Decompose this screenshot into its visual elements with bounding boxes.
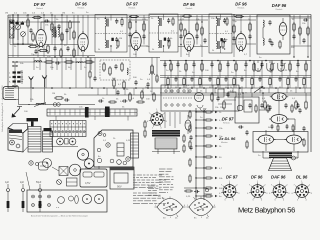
- resistor R46: [189, 124, 191, 126]
- coil package bottom view 1: [157, 199, 183, 216]
- capacitor C4: [44, 20, 46, 22]
- band switch S1: [13, 71, 16, 73]
- resistor R15: [143, 22, 145, 24]
- capacitor C30: [246, 130, 248, 132]
- tube label DF 96 V5: [235, 2, 247, 10]
- wire n1: [13, 43, 33, 45]
- leader line 2: [26, 172, 30, 190]
- screw box: [59, 167, 68, 176]
- tube socket DL 96: [296, 185, 309, 198]
- resistor R49: [189, 174, 191, 176]
- resistor R52: [279, 40, 281, 42]
- resistor R10: [47, 44, 49, 46]
- capacitor C31: [238, 126, 240, 128]
- capacitor C43: [190, 145, 192, 147]
- svg-text:Rimlock: Rimlock: [129, 8, 136, 10]
- component row 2: [167, 77, 169, 79]
- resistor R2: [32, 32, 34, 34]
- note paragraph 2: [133, 192, 137, 194]
- resistor R5: [61, 32, 63, 34]
- resistor R35: [129, 92, 131, 94]
- tube label DF 97 V3: [126, 2, 138, 10]
- svg-text:Rimlock: Rimlock: [238, 8, 245, 10]
- ferrite antenna L6: [3, 87, 16, 100]
- battery B2: [110, 167, 134, 189]
- output stage box: [253, 132, 308, 153]
- svg-text:DF 96: DF 96: [75, 2, 87, 7]
- wire mesh horizontal: [10, 21, 80, 23]
- resistor R25: [299, 26, 301, 28]
- svg-text:6: 6: [214, 205, 215, 207]
- wire keyboard drops: [164, 112, 166, 128]
- resistor R28: [64, 61, 66, 63]
- svg-text:DF 96: DF 96: [235, 2, 247, 7]
- svg-text:Rimlock: Rimlock: [186, 8, 193, 10]
- knob pair: [57, 138, 64, 145]
- resistor R32: [121, 62, 123, 64]
- capacitor C23: [135, 80, 137, 82]
- svg-text:2x DL 96: 2x DL 96: [218, 136, 236, 141]
- resistor R4: [51, 22, 53, 24]
- resistor R20: [201, 26, 203, 28]
- resistor R23: [249, 22, 251, 24]
- variable capacitor C2: [21, 32, 26, 37]
- bottom view box: [27, 190, 107, 212]
- svg-text:1M: 1M: [62, 13, 65, 15]
- coil L7: [36, 103, 38, 104]
- wire filament rails: [160, 74, 311, 76]
- resistor R41: [264, 100, 266, 102]
- resistor R33: [113, 78, 115, 80]
- oscillator dashed box: [100, 60, 130, 80]
- svg-text:1M: 1M: [5, 13, 8, 15]
- wire top bus: [8, 14, 150, 16]
- resistor R13: [129, 20, 131, 22]
- resistor R29: [84, 61, 86, 63]
- clip box: [67, 178, 78, 186]
- resistor R14: [129, 16, 131, 18]
- resistor R44: [144, 120, 146, 122]
- resistor R56: [136, 101, 138, 103]
- tuning capacitor: [43, 131, 53, 152]
- svg-text:Rimlock: Rimlock: [276, 9, 283, 11]
- capacitor C7: [35, 49, 37, 51]
- capacitor C3: [30, 28, 32, 30]
- capacitor C6: [66, 28, 68, 30]
- tube socket DF 96: [251, 185, 264, 198]
- resistor R50: [246, 140, 248, 142]
- component row 1: [164, 61, 166, 65]
- resistor R51: [303, 138, 305, 140]
- wire top rail 2: [8, 16, 150, 18]
- coil L1: [13, 24, 14, 26]
- leader line 1: [52, 167, 59, 171]
- resistor R17: [184, 28, 186, 30]
- IF transformer T3 shield: [209, 14, 232, 53]
- svg-text:3: 3: [201, 217, 202, 219]
- dial scale: [47, 109, 137, 116]
- tube V8 DL96: [259, 135, 274, 144]
- resistor R16: [180, 22, 182, 24]
- resistor R21: [233, 24, 235, 26]
- junction dots left: [113, 87, 115, 89]
- resistor R59: [183, 134, 185, 136]
- capacitor C13: [196, 34, 198, 36]
- potentiometer P2: [254, 87, 262, 93]
- battery B1: [80, 169, 107, 187]
- svg-text:1: 1: [155, 205, 156, 207]
- capacitor C10: [129, 32, 131, 34]
- resistor R12: [73, 48, 75, 50]
- capacitor C24: [147, 82, 149, 84]
- svg-text:4,5V: 4,5V: [85, 181, 91, 185]
- capacitor C12: [180, 34, 182, 36]
- resistor R39: [211, 92, 213, 94]
- keyboard switch S2: [161, 85, 239, 111]
- tube V5 DF96: [236, 34, 246, 51]
- capacitor C37: [94, 76, 96, 78]
- pilot lamp wiring: [184, 187, 196, 189]
- washer detail: [29, 161, 33, 165]
- capacitor C14: [204, 38, 206, 40]
- resistor R36: [141, 90, 143, 92]
- wire s1: [52, 21, 80, 23]
- svg-text:M: M: [9, 77, 11, 79]
- coil package bottom view 2: [189, 199, 213, 216]
- resistor R48: [189, 158, 191, 160]
- knob circle: [69, 164, 81, 176]
- coil L2: [55, 30, 56, 32]
- svg-text:DF 96: DF 96: [183, 2, 195, 7]
- note list: [159, 168, 166, 170]
- capacitor C18: [303, 38, 305, 40]
- tube label DF 96 V4: [183, 2, 195, 10]
- svg-text:3: 3: [170, 217, 171, 219]
- svg-text:Miniatur: Miniatur: [221, 141, 228, 144]
- wire right border: [310, 15, 312, 153]
- wire filament bus: [78, 94, 311, 96]
- IFT core: [54, 27, 56, 38]
- tube V2 DF96: [78, 34, 88, 51]
- wire mesh lower: [33, 58, 35, 71]
- capacitor C40: [271, 124, 273, 126]
- resistor R3: [32, 17, 34, 19]
- tube label DF 97 V1: [34, 2, 46, 10]
- tube V3 DF97: [131, 33, 141, 50]
- svg-text:DF 96: DF 96: [251, 175, 263, 180]
- terminal strip: [10, 20, 15, 38]
- svg-text:DF 97: DF 97: [34, 2, 46, 7]
- tube socket X1: [151, 113, 163, 125]
- coil L4: [76, 62, 78, 63]
- ground arrow: [14, 109, 20, 115]
- screw symbol: [57, 180, 62, 185]
- resistor R27: [44, 61, 46, 63]
- component row af: [249, 103, 251, 105]
- capacitor C15: [233, 36, 235, 38]
- grommet circles: [117, 160, 122, 165]
- capacitor C36: [271, 41, 273, 43]
- resistor R42: [295, 100, 297, 102]
- tube V8a DL96 driver: [271, 115, 287, 124]
- capacitor C5: [58, 24, 60, 26]
- coil L8: [53, 103, 57, 107]
- antenna A1: [30, 80, 32, 88]
- electrolytic cups: [255, 63, 261, 71]
- resistor R22: [234, 16, 236, 18]
- capacitor C21: [115, 64, 117, 66]
- tube V4 DF96: [184, 34, 194, 51]
- wire mesh bus links: [97, 88, 99, 95]
- svg-text:6: 6: [184, 205, 185, 207]
- wire stage sep: [8, 55, 95, 57]
- resistor R53: [156, 74, 158, 76]
- resistor R57: [277, 124, 279, 126]
- IF transformer T1 shield: [95, 15, 127, 53]
- svg-text:DL 96: DL 96: [296, 175, 308, 180]
- svg-text:DF 97: DF 97: [126, 2, 138, 7]
- capacitor C20: [55, 62, 57, 64]
- svg-text:Rimlock: Rimlock: [223, 123, 230, 125]
- resistor R1: [27, 18, 29, 20]
- capacitor C39: [122, 100, 124, 102]
- resistor R47: [189, 140, 191, 142]
- loudspeaker LS1: [269, 153, 292, 159]
- wire mesh vertical: [9, 15, 11, 45]
- tuning knob: [27, 118, 39, 121]
- resistor R60: [183, 144, 185, 146]
- svg-text:90V: 90V: [117, 185, 122, 189]
- note paragraph 1: [133, 174, 136, 176]
- wire left border: [7, 15, 9, 88]
- svg-text:1µF: 1µF: [5, 182, 10, 184]
- capacitor C17: [293, 34, 295, 36]
- capacitor C8: [54, 46, 56, 48]
- resistor R55: [108, 101, 110, 103]
- svg-text:2µF: 2µF: [20, 182, 25, 184]
- resistor R43: [305, 100, 307, 102]
- capacitor C9: [67, 46, 69, 48]
- svg-text:DF 97: DF 97: [222, 117, 234, 122]
- resistor R6: [69, 20, 71, 22]
- resistor R9: [38, 50, 40, 52]
- wire af verticals: [242, 93, 244, 110]
- svg-text:DAF 96: DAF 96: [272, 3, 287, 8]
- resistor R11: [60, 48, 62, 50]
- capacitor C28: [269, 105, 271, 107]
- tube V1 DF97: [36, 30, 46, 47]
- potentiometer P1: [151, 58, 153, 89]
- svg-text:Rimlock: Rimlock: [36, 8, 43, 10]
- capacitor C11: [143, 34, 145, 36]
- tube label DAF 96 V6: [272, 3, 287, 11]
- AF box: [235, 97, 259, 123]
- resistor R24: [293, 22, 295, 24]
- resistor R7: [73, 30, 75, 32]
- chassis plate top view: [94, 130, 133, 167]
- wire mid bus right: [160, 60, 311, 62]
- transformer T5: [152, 130, 180, 137]
- svg-text:Metz Babyphon 56: Metz Babyphon 56: [238, 205, 295, 214]
- chassis bracket: [8, 124, 28, 134]
- tube V10 small: [185, 120, 191, 130]
- variable capacitor C1: [15, 24, 20, 29]
- capacitor C26: [217, 96, 219, 98]
- trimmer caps row: [10, 22, 13, 24]
- capacitor C19: [303, 19, 305, 21]
- wire junctions: [9, 21, 10, 22]
- IF transformer T4 shield: [257, 15, 290, 54]
- coil L5: [127, 68, 128, 70]
- svg-text:1: 1: [187, 205, 188, 207]
- svg-text:Ansicht der Verdrahtungsseite: Ansicht der Verdrahtungsseite — Blick au…: [31, 215, 88, 218]
- resistor R40: [223, 100, 225, 102]
- capacitor C29: [299, 108, 301, 110]
- tube V7 DF97 phase splitter: [272, 93, 286, 101]
- svg-text:1M: 1M: [52, 93, 55, 95]
- resistor R19: [196, 22, 198, 24]
- resistor R58: [292, 124, 294, 126]
- svg-text:DF 97: DF 97: [226, 175, 238, 180]
- resistor R34: [123, 80, 125, 82]
- capacitor C25: [64, 99, 66, 101]
- capacitor C42: [190, 135, 192, 137]
- resistor R45: [189, 110, 191, 112]
- svg-text:Rimlock: Rimlock: [78, 8, 85, 10]
- capacitor C27: [227, 92, 229, 94]
- resistor R38: [54, 97, 56, 99]
- IF can side view: [131, 133, 139, 158]
- push-button unit top view: [50, 121, 86, 137]
- tube socket DF 97: [223, 185, 236, 198]
- note list 2: [148, 185, 155, 187]
- wire right lower bus: [160, 92, 311, 94]
- wire ground bus: [8, 87, 311, 89]
- junction dots right: [167, 87, 169, 89]
- resistor R31: [109, 66, 111, 68]
- tube V9 DL96: [287, 135, 302, 144]
- resistor R37: [153, 92, 155, 94]
- resistor R54: [89, 70, 91, 72]
- wire af: [259, 109, 271, 111]
- capacitor C32: [303, 126, 305, 128]
- tube label DF 96 V2: [75, 2, 87, 10]
- svg-text:50µF: 50µF: [36, 182, 42, 184]
- wire mid bus left: [8, 57, 160, 59]
- capacitor C16: [249, 34, 251, 36]
- capacitor C38: [98, 100, 100, 102]
- dial pulley: [84, 159, 94, 169]
- drum circle 2: [43, 159, 52, 168]
- dial drum: [77, 149, 88, 160]
- svg-text:1M: 1M: [119, 38, 122, 40]
- svg-text:Schaltplan Metz Babyphon 56 —: Schaltplan Metz Babyphon 56 — Ausgabe 19…: [1, 85, 4, 132]
- IF transformer T2 shield: [149, 14, 178, 52]
- resistor R8: [28, 46, 30, 48]
- bracket box: [39, 162, 49, 170]
- capacitor C41: [286, 124, 288, 126]
- tube socket DAF 96: [273, 185, 286, 198]
- switch ladder S3: [195, 108, 197, 200]
- wire v1 anode: [40, 22, 42, 27]
- wire out: [274, 139, 287, 141]
- coil L3: [34, 61, 37, 62]
- tube V6 DAF96 diode: [279, 23, 287, 36]
- wire lower bus left: [28, 104, 95, 106]
- svg-text:DAF 96: DAF 96: [271, 175, 286, 180]
- resistor R26: [307, 26, 309, 28]
- capacitor C22: [117, 90, 119, 92]
- resistor R30: [103, 62, 105, 64]
- wire switch buses: [17, 61, 95, 63]
- antenna A2: [44, 79, 46, 87]
- resistor R18: [182, 15, 184, 17]
